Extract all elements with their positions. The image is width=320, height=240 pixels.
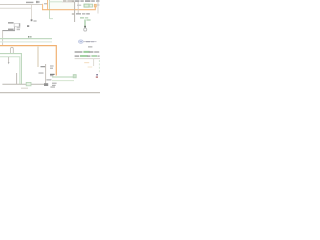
wire: gray lead right: [83, 41, 96, 43]
label text: [46, 79, 51, 80]
connector K1 (green): [84, 4, 89, 7]
terminal block dark: [44, 83, 48, 86]
border: bottom frame line: [0, 92, 100, 94]
wire: green dashes right edge: [98, 60, 100, 73]
module box U1 (green outline): [49, 0, 74, 10]
label marks: [28, 36, 29, 38]
connector hook symbol: [84, 28, 87, 31]
wire: green bus 4 with corner: [0, 57, 20, 84]
splice box: [27, 25, 29, 27]
wire: green drop to connector: [84, 20, 86, 28]
label text faint orange: [84, 62, 89, 63]
label text faint: [21, 88, 28, 89]
wire: stub vertical with splice: [31, 5, 33, 19]
label text: [52, 83, 57, 84]
label text: [50, 86, 55, 87]
label text top right row: [63, 0, 66, 1]
wire: faint top rail 2: [0, 7, 32, 9]
wire: gray drop with arrow: [8, 57, 10, 62]
relay blob blue: [79, 40, 84, 43]
label text: [33, 20, 36, 21]
wire: dark horizontal stub: [2, 30, 15, 32]
wire: short vertical below divider: [93, 59, 95, 66]
component box small: [14, 23, 20, 26]
wire: orange branch vertical 1: [42, 4, 44, 10]
loop symbol: [10, 47, 13, 54]
pin marks: [19, 23, 20, 26]
wire: orange bus: [0, 46, 56, 76]
label text row with green link 1: [75, 51, 83, 52]
label text: [44, 3, 47, 4]
wire: orange branch vertical 2: [47, 0, 49, 10]
wire: green bus 3 with corner: [0, 54, 21, 85]
connector K2 (green): [89, 4, 92, 7]
label text over lead: [86, 41, 90, 42]
connector green end: [73, 75, 76, 78]
wire: divider line right: [75, 58, 100, 60]
junction block: [50, 74, 55, 75]
label text: [41, 66, 46, 67]
arrow terminal: [8, 62, 10, 64]
wire: orange hook up at right: [94, 5, 96, 10]
label text row with green link 2: [75, 55, 80, 56]
component box top: [36, 1, 39, 3]
wire: vertical from stub: [2, 31, 4, 46]
wire: vertical short: [16, 73, 18, 84]
label text: [8, 22, 14, 23]
wire: short vertical right edge: [97, 1, 99, 14]
label text: [39, 72, 44, 73]
terminal dot: [84, 26, 86, 28]
pin box: [17, 29, 20, 30]
wire: vertical bus right of module: [74, 2, 76, 22]
wire: faint vertical: [77, 2, 79, 14]
wire: green bus 2: [0, 41, 52, 43]
splice S1: [31, 19, 33, 21]
wire: green horizontal low: [52, 76, 75, 78]
label text: [50, 65, 54, 66]
wire: bottom bus: [2, 83, 45, 85]
label text left of connectors: [77, 5, 81, 6]
label text green row: [80, 17, 84, 18]
label text: [97, 4, 99, 5]
wire: vertical to bottom bus: [45, 64, 47, 84]
label text row mid right: [76, 13, 81, 14]
label text: [88, 46, 92, 47]
symbol: small dark mark right edge: [96, 74, 98, 76]
wire: beige vertical: [37, 46, 39, 67]
wire: green bus 1: [0, 38, 52, 40]
connector K3 (orange): [94, 4, 96, 7]
wire: orange main horizontal: [42, 9, 96, 11]
wire: vertical into component: [14, 27, 16, 31]
connector bar top: [26, 2, 33, 3]
inline connector (green): [26, 82, 31, 85]
wire: faint green lower: [52, 80, 74, 82]
wire: faint top rail 1: [0, 4, 42, 6]
label text: [8, 29, 14, 30]
